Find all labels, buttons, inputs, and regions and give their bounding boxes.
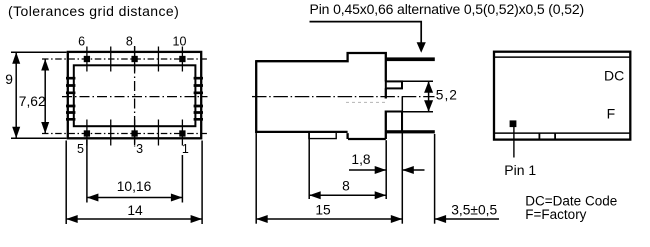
pin 6 pad — [84, 56, 90, 62]
bottom pin row dash-dot line — [42, 133, 208, 135]
svg-text:1,8: 1,8 — [351, 152, 371, 167]
svg-text:3: 3 — [136, 142, 143, 156]
pin 10 pad — [179, 56, 185, 62]
front view pin 1 mark — [510, 120, 517, 127]
top view inner body rect — [74, 65, 196, 126]
svg-text:Pin 1: Pin 1 — [504, 162, 536, 178]
dim 8 right arrowhead — [375, 191, 387, 199]
dim 15 left extension — [255, 133, 257, 224]
side view under-tab — [309, 133, 336, 139]
dim 14 left arrowhead — [66, 215, 78, 223]
lower tab top edge — [386, 112, 402, 132]
dim 10,16 left arrowhead — [87, 194, 99, 202]
top view horizontal centerline — [62, 96, 208, 98]
top pin bar — [386, 57, 435, 61]
grid tick col 7 top — [110, 47, 112, 72]
grid tick col 10/1 bottom — [181, 120, 183, 146]
svg-text:Pin 0,45x0,66 alternative 0,5(: Pin 0,45x0,66 alternative 0,5(0,52)x0,5 … — [310, 1, 585, 17]
dim 14 right arrowhead — [191, 215, 203, 223]
side view body outline — [256, 53, 386, 139]
dim 14 line — [66, 218, 202, 220]
side view hidden line — [346, 101, 385, 103]
dim 7,62 bottom arrowhead — [41, 122, 49, 134]
left band ladder rungs — [66, 78, 75, 119]
dim 5,2 lower extension — [403, 111, 434, 113]
front view top inner line — [495, 56, 630, 58]
dim 10,16 line — [87, 197, 182, 199]
pin 5 pad — [84, 130, 90, 136]
dim 8 left arrowhead — [309, 191, 321, 199]
grid tick col 9 top — [157, 47, 159, 72]
pin 8 pad — [131, 56, 137, 62]
dim 9 bottom extension line — [11, 137, 67, 139]
svg-text:5,2: 5,2 — [436, 88, 458, 103]
dim 8 right extension — [385, 140, 387, 199]
svg-text:1: 1 — [182, 142, 189, 156]
svg-text:F: F — [607, 106, 616, 122]
grid tick col 8/3 top — [134, 47, 136, 72]
grid tick col 6/5 bottom — [86, 120, 88, 146]
bottom pin bar — [386, 130, 435, 133]
svg-text:9: 9 — [5, 72, 13, 87]
grid tick col 6/5 top — [86, 47, 88, 72]
grid tick col 9 bottom — [157, 120, 159, 146]
svg-text:F=Factory: F=Factory — [525, 207, 586, 222]
svg-text:DC: DC — [604, 67, 624, 83]
dim 5,2 line — [428, 81, 430, 112]
middle pin tab — [386, 81, 402, 88]
dim 1,8 right leader — [403, 169, 425, 171]
dim 10,16 right extension — [181, 155, 183, 203]
pin note leader line — [310, 22, 422, 44]
svg-text:(Tolerances grid distance): (Tolerances grid distance) — [8, 3, 179, 19]
dim 1,8 left arrowhead (pointing right) — [375, 166, 387, 174]
dim 1,8 right arrowhead (pointing left) — [402, 166, 414, 174]
dim 3,5 extension — [434, 134, 436, 224]
svg-text:5: 5 — [77, 142, 84, 156]
side view horizontal centerline — [252, 96, 435, 98]
grid tick col 10/1 top — [181, 47, 183, 72]
pin 3 pad — [131, 130, 137, 136]
dim 9 line — [15, 52, 17, 138]
top view outer body rect — [68, 52, 201, 138]
dim 9 bottom arrowhead — [12, 127, 20, 139]
svg-text:8: 8 — [126, 34, 133, 48]
dim 3,5 arrowhead (pointing left) — [435, 215, 447, 223]
pin 1 pad — [179, 130, 185, 136]
dim 5,2 upper extension — [403, 80, 434, 82]
front view outer rect — [494, 52, 630, 140]
dim 5,2 bottom arrowhead — [424, 100, 433, 112]
front view bottom tick 2 — [554, 133, 556, 140]
dim 10,16 left extension — [86, 140, 88, 203]
dim 15 line — [256, 218, 402, 220]
dim 8 left extension — [308, 133, 310, 199]
dim 7,62 line — [44, 59, 46, 134]
svg-text:7,62: 7,62 — [19, 94, 46, 109]
svg-text:8: 8 — [342, 179, 350, 194]
dim 3,5 leader — [435, 218, 499, 220]
dim 14 left extension — [65, 141, 67, 225]
dim 14 right extension — [201, 141, 203, 225]
dim 15 left arrowhead — [256, 215, 268, 223]
dim 9 top extension line — [11, 51, 67, 53]
dim 8 line — [309, 194, 386, 196]
dim 15 right arrowhead — [391, 215, 403, 223]
dim 1,8 left leader — [349, 169, 386, 171]
pin 1 leader — [513, 127, 515, 158]
top view vertical centerline — [134, 46, 136, 147]
dim 7,62 top arrowhead — [41, 59, 49, 71]
dim 9 top arrowhead — [12, 52, 20, 64]
svg-text:10: 10 — [173, 34, 187, 48]
dim 5,2 top arrowhead — [424, 81, 433, 93]
front view bottom inner line — [495, 132, 630, 134]
grid tick col 7 bottom — [110, 120, 112, 146]
svg-text:10,16: 10,16 — [117, 179, 152, 194]
dim 10,16 right arrowhead — [171, 194, 183, 202]
right band ladder rungs — [194, 78, 203, 119]
top pin row dash-dot line — [42, 58, 208, 60]
front view bottom tick 1 — [538, 133, 540, 140]
svg-text:3,5±0,5: 3,5±0,5 — [451, 202, 497, 217]
svg-text:6: 6 — [78, 34, 85, 48]
svg-text:15: 15 — [315, 203, 331, 218]
dim 15 / 1,8 shared right extension — [401, 96, 403, 223]
grid tick col 8/3 bottom — [134, 120, 136, 146]
svg-text:14: 14 — [127, 203, 143, 218]
pin note leader arrowhead — [417, 42, 426, 53]
